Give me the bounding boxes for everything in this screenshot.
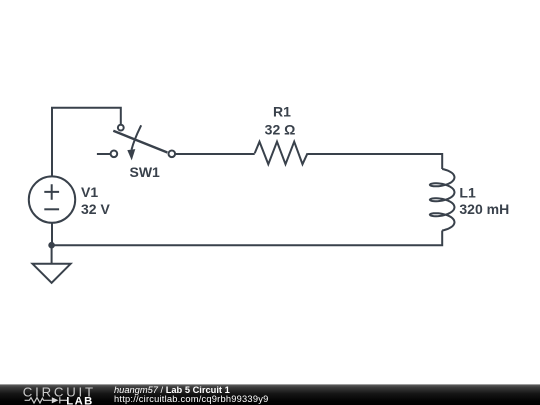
wire inductor bottom to bottom rail xyxy=(52,231,443,246)
logo squiggle wire resistor diode xyxy=(25,397,68,403)
svg-text:32 V: 32 V xyxy=(81,201,110,217)
inductor L1 xyxy=(430,169,455,231)
node junction dot bottom-left xyxy=(48,242,55,249)
value 32 ohm xyxy=(265,121,296,137)
attribution line 1 xyxy=(114,385,230,395)
svg-text:SW1: SW1 xyxy=(130,164,161,180)
voltage source V1 xyxy=(29,176,75,222)
logo LAB text xyxy=(66,395,93,405)
label L1 xyxy=(459,185,476,201)
resistor R1 xyxy=(255,142,308,165)
svg-text:R1: R1 xyxy=(273,104,291,120)
label SW1 xyxy=(130,164,161,180)
wire stub left throw of SW1 xyxy=(97,153,111,155)
label R1 xyxy=(273,104,291,120)
attribution line 2 url xyxy=(114,394,268,404)
svg-text:L1: L1 xyxy=(459,185,476,201)
value 320 mH xyxy=(459,201,509,217)
label V1 xyxy=(81,184,98,200)
svg-text:http://circuitlab.com/cq9rbh99: http://circuitlab.com/cq9rbh99339y9 xyxy=(114,394,268,404)
wire resistor to top-right corner and down to inductor xyxy=(308,154,443,169)
svg-text:32 Ω: 32 Ω xyxy=(265,121,296,137)
wire junction to ground xyxy=(51,245,53,264)
ground symbol xyxy=(33,264,71,283)
footer bar xyxy=(0,384,540,405)
svg-text:LAB: LAB xyxy=(66,395,93,405)
wire V1 bottom to bottom rail xyxy=(51,223,53,246)
logo CIRCUIT text xyxy=(23,384,96,399)
svg-text:320 mH: 320 mH xyxy=(459,201,509,217)
svg-text:V1: V1 xyxy=(81,184,98,200)
switch SW1 xyxy=(111,125,176,161)
value 32 V xyxy=(81,201,110,217)
wire top-left from V1 top up and over to switch common xyxy=(52,108,121,177)
wire switch right throw to resistor xyxy=(175,153,255,155)
